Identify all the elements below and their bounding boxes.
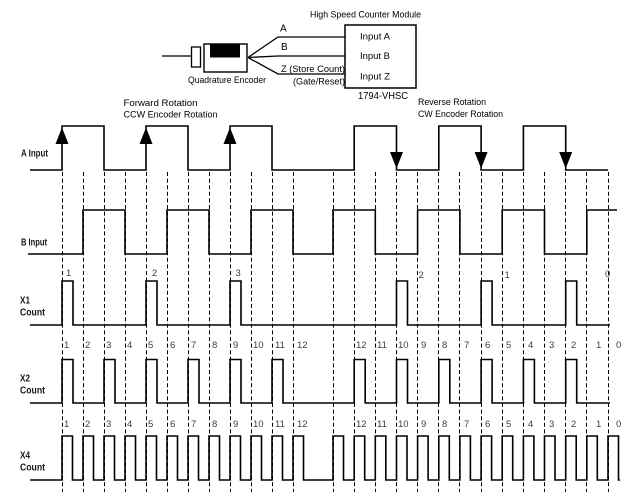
- count number row 1: [64, 340, 621, 351]
- waveform X2 Count: [30, 360, 610, 404]
- svg-text:High Speed Counter Module: High Speed Counter Module: [310, 10, 421, 21]
- svg-text:7: 7: [191, 340, 196, 351]
- svg-text:3: 3: [549, 419, 554, 430]
- svg-text:4: 4: [127, 419, 132, 430]
- svg-text:2: 2: [571, 340, 576, 351]
- svg-text:Count: Count: [20, 386, 46, 397]
- svg-text:1: 1: [64, 340, 69, 351]
- svg-text:Count: Count: [20, 308, 46, 319]
- svg-text:8: 8: [442, 340, 447, 351]
- svg-text:6: 6: [170, 340, 175, 351]
- svg-text:3: 3: [549, 340, 554, 351]
- wire A from encoder to module: [248, 37, 345, 58]
- up arrow (forward/CCW count) on A rising edge x=146: [140, 128, 153, 145]
- svg-text:6: 6: [485, 340, 490, 351]
- waveform A Input: [30, 126, 608, 170]
- svg-text:4: 4: [528, 419, 533, 430]
- X1 count value labels: [66, 268, 610, 281]
- waveform X1 Count: [30, 281, 610, 325]
- svg-text:Input Z: Input Z: [360, 72, 390, 83]
- svg-text:5: 5: [148, 340, 153, 351]
- svg-text:10: 10: [398, 340, 409, 351]
- svg-text:A Input: A Input: [21, 149, 49, 160]
- svg-text:1: 1: [596, 340, 601, 351]
- waveform B Input: [28, 210, 617, 254]
- count number row 2: [64, 419, 621, 430]
- svg-text:Input B: Input B: [360, 51, 390, 62]
- svg-text:CW Encoder Rotation: CW Encoder Rotation: [418, 109, 503, 120]
- svg-text:2: 2: [85, 419, 90, 430]
- svg-text:B: B: [281, 42, 288, 53]
- svg-text:5: 5: [506, 419, 511, 430]
- svg-text:Forward Rotation: Forward Rotation: [124, 98, 198, 109]
- svg-text:8: 8: [212, 340, 217, 351]
- svg-text:B Input: B Input: [21, 238, 48, 249]
- svg-text:1794-VHSC: 1794-VHSC: [358, 91, 408, 102]
- svg-text:9: 9: [421, 340, 426, 351]
- svg-text:Input A: Input A: [360, 32, 391, 43]
- svg-text:8: 8: [212, 419, 217, 430]
- svg-text:Count: Count: [20, 463, 46, 474]
- high speed counter module box U1: [345, 25, 416, 88]
- svg-text:11: 11: [275, 419, 285, 430]
- svg-text:2: 2: [85, 340, 90, 351]
- svg-text:1: 1: [505, 270, 510, 281]
- svg-text:9: 9: [233, 419, 238, 430]
- svg-text:X4: X4: [20, 451, 30, 462]
- svg-text:1: 1: [64, 419, 69, 430]
- svg-text:7: 7: [191, 419, 196, 430]
- svg-text:12: 12: [356, 340, 367, 351]
- svg-text:8: 8: [442, 419, 447, 430]
- svg-text:6: 6: [170, 419, 175, 430]
- down arrow (reverse/CW count) on A falling edge x=565.7: [559, 152, 572, 169]
- svg-text:3: 3: [106, 340, 111, 351]
- svg-text:2: 2: [419, 270, 424, 281]
- svg-text:11: 11: [275, 340, 285, 351]
- wire B from encoder to module: [248, 56, 345, 58]
- waveform X4 Count: [30, 436, 620, 480]
- svg-text:12: 12: [297, 419, 308, 430]
- svg-text:9: 9: [233, 340, 238, 351]
- wire Z from encoder to module: [248, 58, 345, 75]
- svg-text:X2: X2: [20, 374, 30, 385]
- svg-text:1: 1: [596, 419, 601, 430]
- encoder coupling block: [192, 47, 201, 67]
- svg-text:X1: X1: [20, 296, 30, 307]
- svg-text:5: 5: [506, 340, 511, 351]
- svg-text:CCW Encoder Rotation: CCW Encoder Rotation: [124, 110, 218, 121]
- svg-text:2: 2: [152, 268, 157, 279]
- svg-text:7: 7: [464, 419, 469, 430]
- up arrow (forward/CCW count) on A rising edge x=230: [224, 128, 237, 145]
- svg-text:(Gate/Reset): (Gate/Reset): [293, 77, 345, 88]
- svg-text:6: 6: [485, 419, 490, 430]
- svg-text:A: A: [280, 24, 287, 35]
- svg-text:3: 3: [106, 419, 111, 430]
- svg-text:10: 10: [253, 419, 264, 430]
- svg-text:Reverse Rotation: Reverse Rotation: [418, 97, 486, 108]
- svg-text:7: 7: [464, 340, 469, 351]
- svg-text:12: 12: [356, 419, 367, 430]
- svg-text:10: 10: [253, 340, 264, 351]
- svg-text:0: 0: [605, 269, 610, 280]
- svg-text:4: 4: [127, 340, 132, 351]
- svg-text:9: 9: [421, 419, 426, 430]
- svg-text:1: 1: [66, 268, 71, 279]
- up arrow (forward/CCW count) on A rising edge x=62: [56, 128, 69, 145]
- svg-text:Quadrature Encoder: Quadrature Encoder: [188, 75, 266, 86]
- encoder body black label window: [210, 44, 240, 58]
- svg-text:11: 11: [377, 340, 387, 351]
- down arrow (reverse/CW count) on A falling edge x=481.1: [475, 152, 488, 169]
- down arrow (reverse/CW count) on A falling edge x=396.5: [390, 152, 403, 169]
- dashed count gridlines at every A/B edge: [63, 172, 609, 492]
- svg-text:10: 10: [398, 419, 409, 430]
- svg-text:0: 0: [616, 419, 621, 430]
- svg-text:12: 12: [297, 340, 308, 351]
- encoder shaft wire: [162, 55, 191, 57]
- svg-text:4: 4: [528, 340, 533, 351]
- svg-text:0: 0: [616, 340, 621, 351]
- quadrature encoder body: [204, 44, 247, 72]
- svg-text:11: 11: [377, 419, 387, 430]
- svg-text:5: 5: [148, 419, 153, 430]
- svg-text:3: 3: [236, 268, 241, 279]
- svg-text:Z (Store Count): Z (Store Count): [281, 64, 345, 75]
- svg-text:2: 2: [571, 419, 576, 430]
